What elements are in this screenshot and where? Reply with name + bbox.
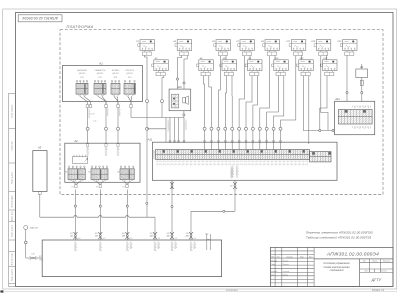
- terminal выход: [99, 185, 101, 188]
- svg-text:А11: А11: [147, 138, 153, 142]
- svg-text:ХТ3: ХТ3: [114, 77, 117, 79]
- wire: [102, 96, 106, 104]
- wire junction bead: [171, 205, 173, 207]
- A11 left labels: [153, 151, 156, 159]
- relay К3: [173, 40, 191, 56]
- wire: [76, 182, 80, 185]
- wire: [178, 118, 180, 143]
- inline connector ring: [224, 127, 227, 130]
- wire: [266, 130, 268, 149]
- wire: [203, 76, 204, 128]
- A22 internal connector: [171, 94, 178, 108]
- wire: [320, 76, 327, 131]
- svg-text:Х3: Х3: [117, 172, 119, 174]
- wire: [245, 130, 247, 149]
- relay К15: [338, 40, 357, 56]
- svg-text:ГН25: ГН25: [39, 260, 43, 262]
- plug connector ХТ: [229, 182, 237, 190]
- wire to chassis bus: [146, 130, 148, 217]
- wire bus to block A12: [303, 130, 334, 132]
- block A2: [65, 143, 140, 182]
- wire A11 output to bus: [234, 189, 236, 211]
- wire: [80, 96, 87, 104]
- wire: [183, 118, 185, 143]
- wire from A22 down: [183, 111, 185, 118]
- wire: [169, 118, 171, 143]
- wire: [246, 76, 252, 128]
- terminal выход: [75, 185, 77, 188]
- inline connector ring: [258, 127, 261, 130]
- svg-text:ХТ0: ХТ0: [31, 254, 34, 256]
- connector ХТ1: [76, 81, 88, 97]
- wire: [126, 239, 128, 241]
- wire: [128, 96, 131, 104]
- ground wire: [25, 230, 27, 259]
- wire junction bead: [361, 92, 363, 94]
- svg-text:Разраб.: Разраб.: [271, 261, 278, 263]
- wire: [238, 130, 240, 149]
- svg-text:Перечень элементов АПЖ301.02.: Перечень элементов АПЖ301.02.00.000ПЭ3: [306, 230, 373, 234]
- dashed enclosure ПЛАТФОРМА: [60, 30, 383, 195]
- svg-text:ДАТЧИК: ДАТЧИК: [79, 72, 86, 75]
- relay К4: [197, 57, 214, 76]
- wire: [97, 182, 101, 185]
- svg-text:ДГТУ: ДГТУ: [371, 278, 382, 282]
- wire: [218, 56, 220, 128]
- chassis bus right segment: [191, 210, 235, 212]
- wire junction bead: [183, 114, 185, 116]
- wire: [184, 55, 187, 89]
- inline connector ring Х: [146, 127, 149, 130]
- wire: [105, 108, 107, 128]
- relay К8: [245, 58, 262, 76]
- wire: [130, 96, 133, 104]
- wire junction bead: [183, 82, 185, 84]
- inline connector ring: [203, 127, 206, 130]
- wire: [117, 108, 119, 128]
- wire K15 to A12: [346, 55, 348, 101]
- inline connector ring Х: [146, 100, 149, 103]
- block A22: [169, 89, 191, 111]
- relay К2: [152, 58, 169, 76]
- power unit A3 tall box: [33, 151, 47, 192]
- A11 internal labels near output: [231, 166, 234, 177]
- inline connector ring: [86, 127, 89, 130]
- svg-text:АПЖ301.02.00.000Э4: АПЖ301.02.00.000Э4: [22, 16, 58, 20]
- svg-text:ДАТЧИК: ДАТЧИК: [97, 72, 104, 75]
- wire: [274, 76, 284, 128]
- wire: [280, 130, 282, 149]
- svg-text:Перв. примен.: Перв. примен.: [12, 104, 14, 118]
- wire from K2 down: [162, 76, 164, 100]
- wire A1 XT4 to A22 net: [130, 108, 132, 118]
- inline connector ring: [279, 127, 282, 130]
- svg-text:Листов 1: Листов 1: [380, 271, 387, 273]
- wire: [281, 56, 296, 128]
- plug connector: [29, 256, 37, 259]
- A2 entry terminals and markings: [87, 144, 89, 147]
- svg-text:Иванов: Иванов: [282, 261, 288, 263]
- wire: [231, 130, 233, 149]
- svg-text:соединений: соединений: [330, 269, 344, 272]
- plug connector Ш2: [95, 232, 102, 240]
- wire into chassis box: [37, 257, 42, 259]
- chassis bus wire left segment with hop-overs: [40, 216, 74, 218]
- A12 main terminal assembly: [338, 110, 372, 125]
- inline connector ring: [245, 127, 248, 130]
- block A12: [335, 101, 375, 134]
- wire horizontal under A22: [131, 117, 184, 119]
- wire: [225, 55, 227, 59]
- svg-text:Ш4: Ш4: [150, 233, 153, 235]
- wire junction bead: [99, 205, 101, 207]
- svg-text:Лист 1: Лист 1: [364, 271, 369, 273]
- svg-text:ПАРАМЕТРЫ: ПАРАМЕТРЫ: [95, 69, 106, 72]
- wire junction bead: [176, 78, 178, 80]
- terminal: [117, 105, 119, 108]
- wire: [211, 130, 213, 149]
- svg-text:Козлов: Козлов: [282, 275, 288, 277]
- wire: [100, 182, 102, 185]
- A11 pin numbering: [157, 161, 308, 163]
- terminal: [86, 105, 88, 108]
- bottom chassis unit box: [42, 240, 221, 277]
- svg-text:Лист: Лист: [277, 257, 281, 259]
- A3 bottom terminal: [38, 192, 41, 195]
- svg-text:АПЖ301.02.00.000Э4: АПЖ301.02.00.000Э4: [326, 252, 379, 258]
- block A1: [63, 66, 143, 102]
- inline connector ring: [231, 127, 234, 130]
- wire A3 to chassis bus: [39, 194, 41, 217]
- wire: [273, 130, 275, 149]
- wire staircase from relays to connector row: [203, 56, 295, 128]
- inline connector ring: [210, 127, 213, 130]
- plug connector Ш3: [122, 232, 129, 240]
- A12 lower mini strip: [353, 126, 371, 129]
- svg-text:Подп. и дата: Подп. и дата: [12, 224, 14, 237]
- wire junction bead: [346, 92, 348, 94]
- svg-text:ХТ2: ХТ2: [98, 77, 101, 79]
- inline connector ring: [105, 127, 108, 130]
- inline connector ring: [117, 127, 120, 130]
- wire: [204, 130, 206, 149]
- connector ХТ4: [124, 81, 136, 97]
- wire from K1 down: [145, 55, 148, 99]
- svg-text:Система управления: Система управления: [323, 261, 350, 265]
- relay К13: [311, 40, 330, 56]
- connector Х3: [120, 166, 134, 182]
- connector Х2: [91, 166, 108, 182]
- ground point: [24, 226, 28, 230]
- wire: [253, 76, 258, 128]
- relay К5: [212, 40, 230, 56]
- wire: [105, 130, 107, 143]
- wire junction bead: [74, 205, 76, 207]
- svg-text:Инв. № дубл.: Инв. № дубл.: [11, 194, 14, 207]
- block A4 small box: [356, 69, 368, 78]
- connector Х1: [68, 166, 85, 182]
- wire: [154, 239, 156, 241]
- svg-text:Масса: Масса: [373, 261, 378, 263]
- svg-text:Справ. №: Справ. №: [11, 141, 14, 151]
- plug connector Ш4: [150, 232, 157, 240]
- svg-text:Дата: Дата: [309, 257, 313, 259]
- block A11: [152, 142, 337, 180]
- wire: [190, 239, 192, 241]
- wire: [259, 130, 261, 149]
- relay К9: [261, 40, 279, 56]
- title block: [270, 247, 393, 286]
- svg-text:Х1: Х1: [65, 172, 67, 174]
- wire: [274, 55, 276, 59]
- terminal: [89, 105, 91, 108]
- wire: [146, 103, 148, 128]
- svg-text:Н.контр.: Н.контр.: [271, 271, 278, 273]
- connector ХТ2: [94, 81, 106, 97]
- wire: [87, 130, 89, 143]
- wire horizontal link: [147, 128, 166, 130]
- wire: [260, 56, 270, 128]
- wire: [325, 55, 327, 59]
- svg-text:Таблица соединений АПЖ301.02.: Таблица соединений АПЖ301.02.00.000ТЭ3: [306, 236, 372, 240]
- inline connector ring: [161, 100, 164, 103]
- wire: [239, 56, 244, 128]
- svg-text:Ш6: Ш6: [186, 233, 189, 235]
- wire: [165, 118, 167, 143]
- svg-text:ДАТЧИК: ДАТЧИК: [112, 72, 119, 75]
- plug connector Ш1: [70, 232, 77, 240]
- svg-text:А2: А2: [73, 139, 78, 143]
- svg-text:СТЕКЛООЧ.: СТЕКЛООЧ.: [125, 70, 135, 72]
- wire: [302, 76, 304, 131]
- wire: [127, 182, 130, 185]
- sheet shadow bottom-left: [0, 290, 3, 292]
- top-left designation stamp: [18, 15, 62, 22]
- svg-text:Пров.: Пров.: [271, 264, 276, 266]
- wire: [117, 96, 118, 104]
- wire: [231, 76, 233, 128]
- wire: [74, 182, 76, 185]
- svg-text:Ш3: Ш3: [122, 233, 125, 235]
- A22 sounder symbol: [183, 98, 186, 103]
- inline connector ring: [272, 127, 275, 130]
- relay К7: [236, 40, 254, 56]
- wire: [74, 239, 76, 241]
- A2 jumper sub-assembly: [72, 157, 87, 164]
- inline connector ring: [251, 127, 254, 130]
- svg-text:Ш1: Ш1: [70, 236, 73, 238]
- inline connector ring: [217, 127, 220, 130]
- svg-text:Масштаб: Масштаб: [383, 261, 390, 263]
- svg-text:Х2: Х2: [88, 172, 90, 174]
- wire: [252, 130, 254, 149]
- svg-text:ПЛАТФОРМА: ПЛАТФОРМА: [66, 25, 93, 29]
- svg-text:Сидоров: Сидоров: [282, 270, 289, 273]
- svg-text:Подп. и дата: Подп. и дата: [12, 171, 14, 184]
- wire: [249, 55, 251, 59]
- svg-text:Петров: Петров: [282, 264, 288, 266]
- wire junction bead: [146, 202, 148, 204]
- relay К1: [136, 40, 154, 56]
- wire: [114, 96, 118, 104]
- wire: [174, 118, 176, 143]
- connector ХТ3: [111, 81, 120, 97]
- wire A4 up: [361, 64, 363, 69]
- wire: [217, 130, 219, 149]
- terminal: [130, 105, 132, 108]
- relay К14: [320, 57, 337, 76]
- wire junction bead: [223, 210, 225, 212]
- svg-text:Подп. и дата: Подп. и дата: [12, 268, 14, 281]
- wire A11 second output: [171, 180, 173, 231]
- svg-text:Копировал: Копировал: [226, 289, 239, 292]
- svg-text:Инв. № подл.: Инв. № подл.: [11, 252, 14, 265]
- ground bead: [24, 241, 27, 244]
- A11 strip right segment: [310, 152, 332, 162]
- terminal выход: [126, 185, 128, 188]
- wire bus corner down to plug: [154, 217, 156, 231]
- plug connector Ш6: [186, 232, 193, 240]
- svg-text:Утв.: Утв.: [271, 275, 275, 277]
- wire: [209, 76, 212, 128]
- wires into A22: [178, 55, 182, 89]
- wire: [171, 239, 173, 241]
- wire: [125, 182, 127, 185]
- plug connector: [170, 182, 174, 190]
- svg-text:ХТ4: ХТ4: [128, 77, 131, 79]
- relay К12: [297, 58, 314, 76]
- wire: [225, 76, 226, 128]
- svg-text:Взам. инв.: Взам. инв.: [12, 211, 14, 221]
- svg-text:"МАССА": "МАССА": [30, 227, 39, 230]
- svg-text:Ш1: Ш1: [70, 233, 73, 235]
- wire: [117, 130, 119, 143]
- svg-text:Формат А3: Формат А3: [372, 289, 385, 292]
- svg-text:ДАТЧИК: ДАТЧИК: [127, 72, 134, 75]
- wire into strip segment: [308, 76, 310, 144]
- terminal: [105, 105, 107, 108]
- svg-text:Изм: Изм: [271, 257, 274, 259]
- svg-text:Ш5: Ш5: [167, 233, 170, 235]
- A12 upper mini strip: [353, 106, 371, 109]
- inline connector ring: [265, 127, 268, 130]
- wire: [224, 130, 226, 149]
- wire junction bead: [332, 129, 334, 131]
- svg-text:ДВИЖЕНИЕ: ДВИЖЕНИЕ: [77, 70, 88, 72]
- relay К11: [287, 40, 306, 56]
- svg-text:Подп.: Подп.: [300, 257, 305, 259]
- wire junction bead: [126, 205, 128, 207]
- wire: [74, 190, 76, 232]
- A11 terminal strip: [156, 150, 310, 160]
- svg-text:ХТ1: ХТ1: [80, 77, 83, 79]
- fuse F1 on wire: [361, 78, 363, 102]
- wire bus corner down to plug right: [190, 211, 192, 231]
- wire: [161, 103, 163, 118]
- svg-text:А3: А3: [37, 146, 42, 150]
- plug connector Ш5: [167, 232, 174, 240]
- wire: [300, 55, 302, 59]
- svg-text:ЗЕРКАЛО: ЗЕРКАЛО: [112, 69, 121, 72]
- wire: [267, 76, 279, 128]
- wire: [98, 96, 106, 104]
- wire junction bead: [319, 129, 321, 131]
- relay К10: [272, 58, 289, 76]
- antenna входа symbol: [205, 234, 210, 250]
- svg-text:Ш2: Ш2: [95, 233, 98, 235]
- svg-text:А4: А4: [359, 66, 364, 69]
- relay К6: [220, 58, 237, 76]
- wire: [99, 190, 101, 232]
- left margin column boxes: [9, 93, 16, 286]
- inline connector ring: [238, 127, 241, 130]
- svg-text:А12: А12: [334, 97, 340, 101]
- svg-text:Лит.: Лит.: [363, 261, 367, 263]
- wire: [86, 108, 88, 128]
- svg-text:А1: А1: [98, 62, 103, 66]
- wire: [99, 239, 101, 241]
- wire: [321, 56, 328, 131]
- wire: [84, 96, 91, 104]
- wire: [126, 190, 128, 232]
- wire marking smudges: [89, 109, 91, 118]
- svg-text:А22: А22: [176, 85, 182, 89]
